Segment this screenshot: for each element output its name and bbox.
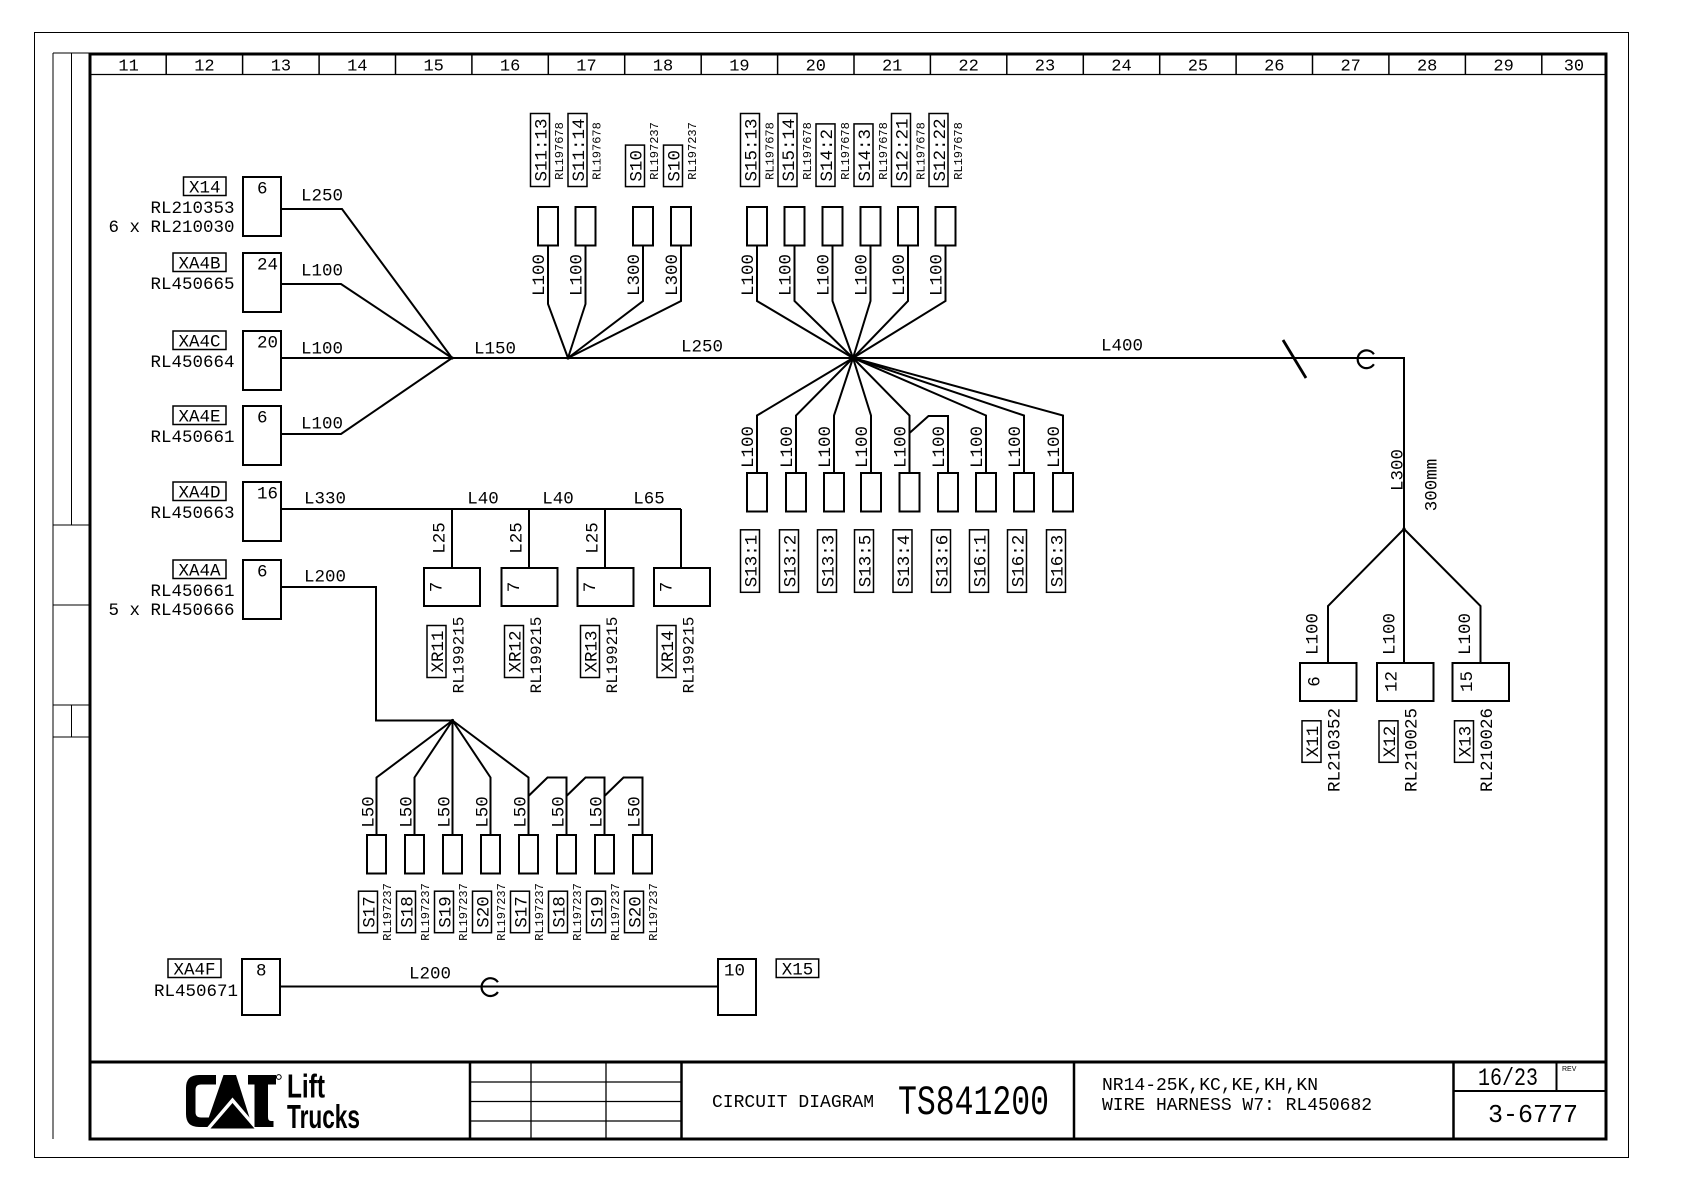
svg-text:XR13: XR13: [582, 630, 602, 672]
connector XA4F: [168, 959, 221, 978]
wire L200 from XA4F to X15: [280, 986, 718, 988]
svg-text:L330: L330: [304, 489, 346, 509]
svg-text:L100: L100: [778, 426, 798, 468]
svg-text:RL210352: RL210352: [1325, 708, 1345, 792]
svg-text:S13:6: S13:6: [933, 535, 953, 588]
svg-text:27: 27: [1340, 58, 1360, 77]
terminal S16:2: [1014, 473, 1034, 512]
clip symbol on L400: [1358, 350, 1374, 368]
svg-text:XR12: XR12: [506, 630, 526, 672]
svg-text:RL197678: RL197678: [914, 122, 928, 180]
svg-text:RL450671: RL450671: [154, 982, 238, 1002]
svg-text:S19: S19: [588, 896, 608, 928]
svg-text:RL197237: RL197237: [647, 883, 661, 941]
svg-text:L50: L50: [473, 796, 493, 828]
connector X13 (RL210026): [1453, 663, 1510, 701]
svg-text:17: 17: [576, 58, 596, 77]
svg-text:RL450661: RL450661: [150, 582, 234, 602]
wire L100 from S14:3 to splice J3: [853, 246, 871, 359]
svg-text:16: 16: [500, 58, 520, 77]
svg-text:RL210026: RL210026: [1478, 708, 1498, 792]
svg-text:20: 20: [806, 58, 826, 77]
terminal S13:1: [747, 473, 767, 512]
svg-text:20: 20: [257, 334, 278, 354]
wire L100 from XA4C to splice J1: [281, 357, 452, 359]
svg-text:X15: X15: [782, 961, 814, 981]
svg-text:L100: L100: [776, 254, 796, 296]
wire L100 from splice J5 to X13: [1404, 529, 1481, 663]
terminal S13:6: [938, 473, 958, 512]
svg-text:S14:3: S14:3: [856, 129, 876, 182]
svg-text:L100: L100: [1456, 613, 1476, 655]
svg-text:L100: L100: [891, 426, 911, 468]
svg-text:X14: X14: [189, 179, 221, 199]
svg-text:15: 15: [423, 58, 443, 77]
svg-text:RL199215: RL199215: [604, 617, 622, 694]
terminal S19 (RL197237) at x=604.5: [595, 835, 614, 874]
svg-text:S20: S20: [626, 896, 646, 928]
svg-text:L100: L100: [301, 339, 343, 359]
svg-text:L100: L100: [530, 254, 550, 296]
terminal S20 (RL197237) at x=490.5: [481, 835, 500, 874]
wire L100 from splice J5 to X11: [1328, 529, 1404, 663]
svg-text:28: 28: [1417, 58, 1437, 77]
connector XR12: [502, 568, 558, 606]
svg-text:S13:1: S13:1: [742, 535, 762, 588]
svg-text:XA4C: XA4C: [178, 333, 220, 353]
svg-text:26: 26: [1264, 58, 1284, 77]
svg-text:25: 25: [1188, 58, 1208, 77]
harness break mark on L400: [1283, 340, 1306, 378]
svg-text:23: 23: [1035, 58, 1055, 77]
connector XA4C: [173, 331, 226, 350]
svg-text:7: 7: [505, 582, 525, 593]
svg-text:RL199215: RL199215: [528, 617, 546, 694]
svg-text:S17: S17: [512, 896, 532, 928]
terminal S12:22 (RL197678): [929, 114, 948, 187]
connector X12 (RL210025): [1377, 663, 1434, 701]
svg-text:L100: L100: [930, 426, 950, 468]
terminal S14:3 (RL197678): [854, 124, 873, 186]
svg-text:L100: L100: [567, 254, 587, 296]
connector X14: [184, 177, 227, 196]
svg-text:21: 21: [882, 58, 902, 77]
wire L100 from S14:2 to splice J3: [833, 246, 854, 359]
svg-text:RL197678: RL197678: [801, 122, 815, 180]
svg-text:300mm: 300mm: [1422, 459, 1442, 512]
wire L100 from S15:14 to splice J3: [795, 246, 854, 359]
svg-text:RL197237: RL197237: [571, 883, 585, 941]
svg-text:L50: L50: [549, 796, 569, 828]
terminal S13:2: [786, 473, 806, 512]
svg-text:L100: L100: [301, 261, 343, 281]
svg-text:7: 7: [427, 582, 447, 593]
wire L50 from splice J4 to S19 at x=604.5: [567, 778, 605, 836]
svg-text:S12:21: S12:21: [893, 118, 913, 181]
terminal S17 (RL197237) at x=528.5: [519, 835, 538, 874]
wire L330/L40/L40/L65 trunk from XA4D to XR14: [281, 508, 681, 510]
svg-text:Trucks: Trucks: [287, 1098, 360, 1135]
svg-text:RL197678: RL197678: [763, 122, 777, 180]
svg-text:S18: S18: [550, 896, 570, 928]
svg-text:11: 11: [118, 58, 138, 77]
svg-text:X11: X11: [1304, 726, 1324, 758]
terminal S13:5: [861, 473, 881, 512]
svg-text:S11:13: S11:13: [532, 118, 552, 181]
svg-text:S13:3: S13:3: [819, 535, 839, 588]
wire L100 from splice J3 to S13:4: [853, 358, 910, 473]
svg-text:L250: L250: [301, 186, 343, 206]
svg-text:RL197678: RL197678: [952, 122, 966, 180]
svg-text:12: 12: [194, 58, 214, 77]
terminal S14:2 (RL197678): [816, 124, 835, 186]
svg-text:RL197237: RL197237: [457, 883, 471, 941]
svg-text:RL450663: RL450663: [150, 504, 234, 524]
svg-text:18: 18: [653, 58, 673, 77]
wire L50 from splice J4 to S18 at x=566.5: [529, 778, 567, 836]
wire L100 from splice J3 to S16:1: [853, 358, 986, 473]
wire L25 drop to XR11: [451, 509, 453, 568]
svg-text:24: 24: [257, 256, 278, 276]
wire L100 from splice J3 to S16:3: [853, 358, 1063, 473]
svg-text:S15:13: S15:13: [742, 118, 762, 181]
wire L25 drop to XR13: [604, 509, 606, 568]
terminal S10 (RL197237): [626, 145, 645, 187]
svg-text:XA4B: XA4B: [178, 255, 220, 275]
splice junction J5: [1402, 527, 1405, 530]
wire L100 from S12:22 to splice J3: [853, 246, 946, 359]
svg-text:L40: L40: [542, 489, 574, 509]
wire L250 from X14 to splice J1: [281, 209, 452, 358]
connector XA4B: [173, 253, 226, 272]
wire L100 from S12:21 to splice J3: [853, 246, 908, 359]
svg-text:S13:2: S13:2: [781, 535, 801, 588]
svg-text:12: 12: [1382, 671, 1402, 692]
splice junction J1: [450, 356, 453, 359]
svg-text:RL450664: RL450664: [150, 353, 234, 373]
svg-text:RL197678: RL197678: [590, 122, 604, 180]
splice junction J3: [851, 356, 854, 359]
svg-text:RL197237: RL197237: [419, 883, 433, 941]
terminal S13:3: [824, 473, 844, 512]
svg-text:13: 13: [271, 58, 291, 77]
svg-text:S19: S19: [436, 896, 456, 928]
svg-text:10: 10: [724, 962, 745, 982]
wire L250 trunk J2 to J3: [568, 357, 853, 359]
wire L100 from splice J3 to S13:3: [834, 358, 853, 473]
wire L50 from splice J4 to S17 at x=376.5: [377, 721, 453, 836]
svg-text:7: 7: [657, 582, 677, 593]
svg-text:L100: L100: [968, 426, 988, 468]
svg-text:L100: L100: [1045, 426, 1065, 468]
svg-text:L50: L50: [359, 796, 379, 828]
svg-text:S15:14: S15:14: [780, 118, 800, 181]
svg-text:L50: L50: [625, 796, 645, 828]
connector XA4E: [173, 406, 226, 425]
svg-text:S17: S17: [360, 896, 380, 928]
terminal S16:3: [1053, 473, 1073, 512]
svg-text:L100: L100: [1303, 613, 1323, 655]
svg-text:29: 29: [1493, 58, 1513, 77]
svg-text:L50: L50: [587, 796, 607, 828]
svg-text:RL199215: RL199215: [680, 617, 698, 694]
svg-text:6: 6: [257, 180, 268, 200]
wire L50 from splice J4 to S17 at x=528.5: [453, 721, 529, 836]
svg-text:L400: L400: [1101, 336, 1143, 356]
svg-text:RL199215: RL199215: [450, 617, 468, 694]
wire L100 from S15:13 to splice J3: [757, 246, 853, 359]
connector X15: [718, 959, 756, 1015]
svg-text:RL197678: RL197678: [839, 122, 853, 180]
svg-text:RL210025: RL210025: [1402, 708, 1422, 792]
svg-text:3-6777: 3-6777: [1488, 1100, 1578, 1130]
wire L50 from splice J4 to S20 at x=490.5: [453, 721, 491, 836]
wire L50 from splice J4 to S20 at x=642.5: [605, 778, 643, 836]
svg-text:L300: L300: [1388, 449, 1408, 491]
svg-text:22: 22: [958, 58, 978, 77]
splice junction J2: [566, 356, 569, 359]
svg-text:RL197237: RL197237: [381, 883, 395, 941]
svg-text:S14:2: S14:2: [818, 129, 838, 182]
svg-text:L100: L100: [890, 254, 910, 296]
svg-text:L65: L65: [633, 489, 665, 509]
wire L100 from splice J3 to S13:1: [757, 358, 853, 473]
terminal S11:13 (RL197678): [531, 114, 550, 187]
svg-text:RL197237: RL197237: [648, 122, 662, 180]
svg-text:L200: L200: [409, 964, 451, 984]
connector XR13: [578, 568, 634, 606]
connector XA4A: [173, 560, 226, 579]
svg-text:L50: L50: [397, 796, 417, 828]
wire L400 trunk J3 to corner: [853, 358, 1404, 529]
svg-text:L300: L300: [625, 254, 645, 296]
svg-text:XA4D: XA4D: [178, 484, 220, 504]
svg-text:S16:1: S16:1: [971, 535, 991, 588]
svg-text:L100: L100: [739, 426, 759, 468]
terminal S18 (RL197237) at x=414.5: [405, 835, 424, 874]
svg-text:L100: L100: [301, 414, 343, 434]
svg-text:NR14-25K,KC,KE,KH,KN: NR14-25K,KC,KE,KH,KN: [1102, 1076, 1318, 1096]
wire L100 from splice J3 to S13:5: [853, 358, 871, 473]
terminal S10 (RL197237): [664, 145, 683, 187]
terminal S15:13 (RL197678): [741, 114, 760, 187]
svg-text:XR14: XR14: [659, 630, 679, 672]
svg-text:L100: L100: [1380, 613, 1400, 655]
svg-text:RL450665: RL450665: [150, 275, 234, 295]
svg-text:RL197237: RL197237: [533, 883, 547, 941]
wire L150 trunk J1 to J2: [452, 357, 568, 359]
terminal S19 (RL197237) at x=452.5: [443, 835, 462, 874]
svg-text:RL197237: RL197237: [686, 122, 700, 180]
wire L50 from splice J4 to S18 at x=414.5: [415, 721, 453, 836]
wire L200 from XA4A to splice J4: [281, 587, 453, 721]
wire L50 from splice J4 to S19 at x=452.5: [452, 721, 454, 836]
svg-text:RL210353: RL210353: [150, 199, 234, 219]
svg-text:RL197678: RL197678: [877, 122, 891, 180]
terminal S15:14 (RL197678): [778, 114, 797, 187]
svg-text:WIRE HARNESS W7: RL450682: WIRE HARNESS W7: RL450682: [1102, 1096, 1372, 1116]
terminal S17 (RL197237) at x=376.5: [367, 835, 386, 874]
svg-text:6 x RL210030: 6 x RL210030: [108, 218, 234, 238]
clip symbol on L200: [482, 978, 498, 996]
splice junction J4: [451, 719, 454, 722]
svg-text:L25: L25: [583, 522, 603, 554]
svg-text:L50: L50: [435, 796, 455, 828]
svg-text:XA4E: XA4E: [178, 408, 220, 428]
svg-text:L100: L100: [853, 426, 873, 468]
svg-text:XR11: XR11: [429, 630, 449, 672]
svg-text:S20: S20: [474, 896, 494, 928]
svg-text:7: 7: [581, 582, 601, 593]
svg-text:REV: REV: [1562, 1066, 1577, 1073]
svg-text:S18: S18: [398, 896, 418, 928]
svg-text:L100: L100: [852, 254, 872, 296]
wire L100 from splice J3 to S13:2: [796, 358, 853, 473]
svg-text:X13: X13: [1456, 726, 1476, 758]
svg-text:L100: L100: [1006, 426, 1026, 468]
svg-text:L25: L25: [507, 522, 527, 554]
terminal S11:14 (RL197678): [568, 114, 587, 187]
svg-text:15: 15: [1458, 671, 1478, 692]
svg-text:6: 6: [1305, 676, 1325, 687]
svg-text:30: 30: [1564, 58, 1584, 77]
svg-text:5 x RL450666: 5 x RL450666: [108, 601, 234, 621]
svg-text:8: 8: [256, 962, 267, 982]
svg-text:24: 24: [1111, 58, 1131, 77]
wire L100 from splice J5 to X12: [1403, 529, 1405, 663]
svg-text:L250: L250: [681, 337, 723, 357]
svg-text:S10: S10: [665, 150, 685, 182]
svg-text:RL197678: RL197678: [553, 122, 567, 180]
terminal S20 (RL197237) at x=642.5: [633, 835, 652, 874]
terminal S13:4: [900, 473, 920, 512]
terminal S18 (RL197237) at x=566.5: [557, 835, 576, 874]
wire L25 drop to XR12: [528, 509, 530, 568]
svg-text:6: 6: [257, 563, 268, 583]
svg-text:XA4F: XA4F: [173, 961, 215, 981]
svg-text:S16:3: S16:3: [1048, 535, 1068, 588]
connector XR14: [654, 568, 710, 606]
svg-text:S13:4: S13:4: [895, 535, 915, 588]
svg-text:S12:22: S12:22: [931, 118, 951, 181]
wire L100 from splice J3 to S16:2: [853, 358, 1024, 473]
svg-text:L300: L300: [663, 254, 683, 296]
terminal S12:21 (RL197678): [892, 114, 911, 187]
svg-text:L150: L150: [474, 339, 516, 359]
svg-text:TS841200: TS841200: [898, 1079, 1049, 1127]
svg-text:L100: L100: [739, 254, 759, 296]
svg-text:L50: L50: [511, 796, 531, 828]
svg-text:L200: L200: [304, 567, 346, 587]
terminal S16:1: [976, 473, 996, 512]
connector XA4D: [173, 482, 226, 501]
wire L100 from XA4E to splice J1: [281, 358, 452, 434]
wire L300 from S10 to splice J2: [568, 246, 643, 359]
svg-text:RL450661: RL450661: [150, 428, 234, 448]
wire L300 from S10 to splice J2: [568, 246, 681, 359]
svg-text:L100: L100: [816, 426, 836, 468]
svg-text:19: 19: [729, 58, 749, 77]
svg-text:L40: L40: [467, 489, 499, 509]
svg-text:S13:5: S13:5: [856, 535, 876, 588]
svg-text:16/23: 16/23: [1478, 1064, 1538, 1093]
svg-text:S11:14: S11:14: [570, 118, 590, 181]
svg-text:14: 14: [347, 58, 367, 77]
connector X11 (RL210352): [1300, 663, 1357, 701]
svg-text:6: 6: [257, 409, 268, 429]
svg-text:L25: L25: [430, 522, 450, 554]
svg-text:CIRCUIT DIAGRAM: CIRCUIT DIAGRAM: [712, 1093, 874, 1113]
svg-text:RL197237: RL197237: [495, 883, 509, 941]
wire L100 from S11:13 to splice J2: [548, 246, 568, 359]
svg-text:L100: L100: [927, 254, 947, 296]
wire L25 drop to XR14: [680, 509, 682, 568]
svg-text:X12: X12: [1381, 726, 1401, 758]
wire L100 from S11:14 to splice J2: [568, 246, 586, 359]
svg-text:RL197237: RL197237: [609, 883, 623, 941]
connector XR11: [424, 568, 480, 606]
svg-text:S16:2: S16:2: [1009, 535, 1029, 588]
wire L100 from splice J3 to S13:6: [910, 416, 949, 473]
wire L100 from XA4B to splice J1: [281, 284, 452, 358]
svg-text:L100: L100: [814, 254, 834, 296]
svg-text:16: 16: [257, 485, 278, 505]
svg-text:S10: S10: [627, 150, 647, 182]
svg-text:XA4A: XA4A: [178, 562, 221, 582]
